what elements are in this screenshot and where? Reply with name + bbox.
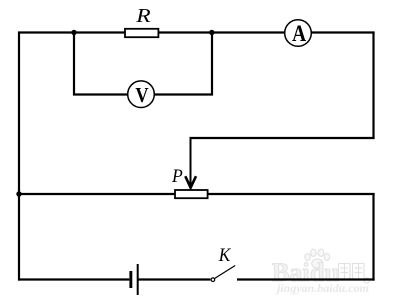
wire: left vertical (18, 32, 20, 281)
potentiometer wiper arrowhead (185, 176, 196, 188)
wire: voltmeter branch left vertical (73, 33, 75, 96)
wire: bottom right segment from switch (237, 278, 375, 280)
node junction dot right of R (209, 30, 214, 35)
wire: middle horizontal through P (18, 193, 375, 195)
switch K pivot circle (211, 278, 215, 282)
wire: wiper feed horizontal (190, 137, 375, 139)
svg-text:V: V (135, 83, 148, 107)
svg-text:R: R (135, 5, 151, 27)
svg-text:A: A (292, 21, 306, 46)
wire: right vertical upper segment (372, 32, 374, 140)
ammeter A circle (285, 20, 312, 47)
wire: voltmeter branch horizontal (73, 93, 213, 95)
wire: voltmeter branch right vertical (211, 33, 213, 96)
potentiometer P box (175, 190, 208, 198)
wire: bottom between battery and switch (139, 278, 211, 280)
wire: bottom left segment to battery (18, 278, 129, 280)
svg-text:P: P (171, 167, 183, 187)
node junction dot on left vertical at middle wire (16, 191, 21, 196)
watermark Baidu jingyan logo (272, 249, 369, 295)
svg-text:jingyan.baidu.com: jingyan.baidu.com (275, 281, 369, 295)
voltmeter V circle (128, 81, 155, 108)
svg-text:K: K (218, 245, 232, 266)
switch K lever (215, 266, 236, 279)
battery negative plate (short thick) (129, 271, 132, 288)
node junction dot left top (71, 30, 76, 35)
wire: wiper stem vertical (190, 137, 192, 187)
wire: right vertical lower segment (372, 193, 374, 281)
battery positive plate (long thin) (137, 264, 139, 295)
resistor R1 box (125, 29, 158, 37)
wire: top horizontal (18, 31, 375, 33)
